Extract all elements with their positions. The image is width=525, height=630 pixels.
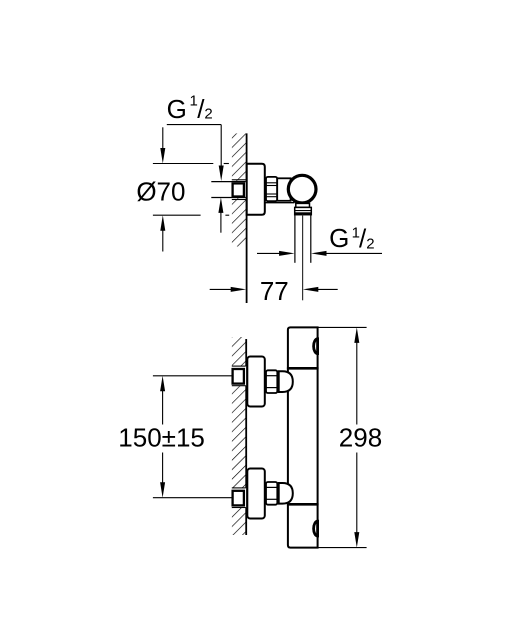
lower wall fitting white backing	[231, 488, 246, 508]
supply pipe lines behind wall	[211, 181, 246, 183]
svg-text:Ø70: Ø70	[136, 176, 185, 206]
dimension 150±15	[118, 376, 231, 498]
upper union nut front view	[266, 370, 277, 393]
top cap edge ellipse (handle)	[314, 339, 318, 354]
dimension G 1/2 (top)	[167, 92, 224, 232]
escutcheon side view	[247, 164, 265, 215]
hose flange	[295, 207, 312, 214]
dimension G 1/2 (hose)	[257, 223, 382, 256]
svg-text:150±15: 150±15	[118, 422, 205, 452]
wall face line (top view)	[246, 133, 248, 303]
upper wall fitting white backing	[231, 366, 246, 386]
upper wall fitting outer lines	[232, 365, 246, 367]
wall hatching (bottom view)	[232, 337, 246, 535]
upper inlet bulge	[279, 371, 293, 392]
wall hatching (top view)	[232, 133, 246, 246]
wall fitting square (top view)	[233, 183, 244, 196]
lower inlet bulge	[279, 483, 293, 504]
cap/bar junction lines	[288, 367, 318, 370]
wall pipe hole (white gap in hatch)	[231, 181, 246, 198]
upper wall fitting square	[233, 369, 244, 384]
bottom cap of body	[288, 504, 318, 547]
svg-text:2: 2	[204, 105, 212, 122]
lower escutcheon front view	[247, 469, 264, 519]
lower wall fitting outer lines	[232, 487, 246, 489]
shower hose lines	[294, 215, 296, 263]
lower union nut front view	[266, 482, 277, 505]
body lower contour line	[265, 202, 295, 204]
valve body side view	[277, 178, 290, 201]
dimension Ø70	[136, 127, 229, 251]
hose neck	[296, 203, 310, 207]
lower wall fitting square	[233, 491, 244, 506]
svg-text:298: 298	[339, 423, 382, 453]
dimension 298	[318, 327, 383, 547]
top cap of body	[288, 327, 318, 368]
svg-text:G: G	[167, 94, 187, 124]
svg-text:2: 2	[366, 236, 374, 253]
svg-text:77: 77	[260, 276, 289, 306]
wall face line (bottom view)	[245, 339, 247, 535]
upper escutcheon front view	[247, 357, 264, 407]
union nut side view	[266, 177, 277, 201]
knob circle (side view)	[288, 175, 316, 203]
dimension 77	[210, 276, 338, 306]
nut facet lines	[267, 183, 277, 197]
bottom cap edge ellipse (handle)	[314, 521, 318, 536]
wall fitting outer lines (top view)	[232, 179, 246, 181]
svg-text:G: G	[329, 223, 349, 253]
thermostat body bar	[288, 368, 318, 504]
